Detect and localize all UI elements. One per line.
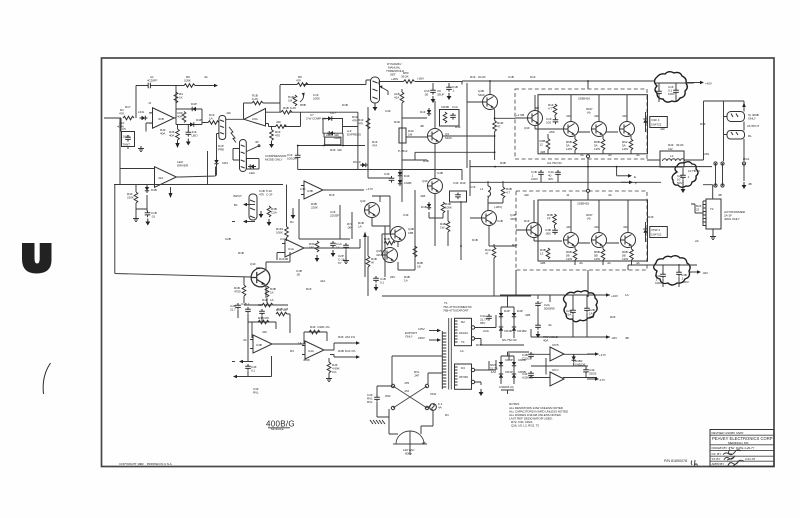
op-amp U4B: [302, 341, 327, 359]
svg-text:T4: T4: [461, 340, 465, 344]
svg-text:4.99K 1%: 4.99K 1%: [317, 325, 330, 329]
svg-text:R2F: R2F: [610, 315, 616, 319]
svg-text:+: +: [541, 300, 543, 304]
resistor R50 39.2K: [404, 80, 415, 84]
op-amp U1A: [149, 108, 176, 129]
resistor R15 horizontal: [262, 303, 273, 307]
svg-text:INPUT: INPUT: [233, 194, 242, 198]
svg-text:D4P: D4P: [517, 309, 523, 313]
bridge2 diode D23: [512, 372, 516, 380]
ground left: [133, 216, 139, 222]
diode D15: [643, 227, 647, 235]
svg-text:2SB5416: 2SB5416: [578, 97, 590, 101]
bridge1 diode D16: [499, 311, 503, 319]
wire: drive line to lower bank: [369, 170, 462, 181]
svg-text:R1F: R1F: [524, 219, 530, 223]
wire: U2 output right to CR4 chain: [177, 167, 216, 178]
diode CR7: [326, 116, 334, 120]
svg-text:SET: SET: [390, 73, 396, 77]
fuse F1: [430, 404, 437, 411]
potentiometer P1: [371, 77, 380, 103]
arrow up at jack feed: [742, 103, 746, 108]
diode D2: [190, 107, 198, 111]
svg-text:L2: L2: [670, 154, 674, 158]
resistor loop box: [325, 137, 341, 145]
svg-text:150: 150: [309, 246, 314, 250]
capacitor C4G in cloud3: [676, 270, 682, 277]
svg-text:41F: 41F: [337, 148, 342, 152]
svg-text:C4F: C4F: [384, 172, 390, 176]
capacitor C6: [145, 211, 151, 218]
resistor R32: [413, 246, 417, 257]
capacitor C25: [528, 352, 534, 359]
bridge1 diode D17: [512, 311, 516, 319]
svg-text:20.2K: 20.2K: [478, 75, 487, 79]
svg-text:R1: R1: [290, 220, 294, 224]
transistor Q3: [251, 268, 270, 287]
svg-text:12W: 12W: [622, 257, 628, 261]
svg-text:380: 380: [589, 315, 594, 319]
capacitor C11: [343, 243, 349, 250]
wire: top feedback bus: [136, 86, 184, 119]
wire: -42 rail: [628, 264, 663, 266]
wire: base bus 2: [578, 242, 619, 244]
svg-text:D14 1%: D14 1%: [345, 349, 356, 353]
output transistor Q26: [592, 233, 607, 248]
svg-text:470: 470: [275, 134, 280, 138]
svg-text:100K: 100K: [276, 231, 284, 235]
svg-text:LIN1: LIN1: [138, 110, 145, 114]
ground below C4: [186, 139, 191, 146]
op-amp U3: [301, 181, 326, 199]
svg-text:4700: 4700: [234, 290, 241, 294]
svg-text:41B: 41B: [525, 313, 530, 317]
wire: input feed from left border: [104, 117, 121, 119]
diode pair bias: [398, 170, 402, 178]
capacitor C13: [295, 153, 301, 160]
svg-text:15B: 15B: [408, 231, 413, 235]
wire: switch to plug loop: [389, 409, 433, 434]
secondary terminals S1: [471, 326, 474, 329]
svg-text:R1F: R1F: [329, 193, 335, 197]
feedback loop wire: [244, 85, 281, 119]
wire: U1B output: [307, 239, 360, 248]
feedback ladder under U3: resistor R30: [299, 199, 350, 239]
svg-text:0.1: 0.1: [251, 369, 255, 373]
svg-text:R4B: R4B: [277, 307, 283, 311]
cloud 4 hand-drawn: [564, 291, 598, 322]
svg-text:U5 C: U5 C: [552, 368, 560, 372]
output jack J4: [727, 131, 745, 140]
svg-text:41F: 41F: [566, 114, 571, 118]
svg-text:OUTPUT: OUTPUT: [747, 124, 759, 128]
connector pins cluster: [716, 163, 745, 186]
svg-text:.1: .1: [452, 89, 455, 93]
svg-text:C1F: C1F: [470, 185, 476, 189]
wire: +42V top rail: [500, 295, 610, 308]
resistor R5 47K: [297, 83, 308, 87]
wire: U6 output to jack J1: [227, 118, 244, 120]
resistor R33: [441, 202, 445, 213]
svg-text:APPR BY: APPR BY: [712, 462, 725, 466]
resistor R13: [242, 285, 246, 296]
svg-text:4.7: 4.7: [506, 191, 510, 195]
capacitor C23: [486, 314, 492, 321]
wire: base bus: [563, 129, 618, 132]
svg-text:R4B: R4B: [338, 349, 344, 353]
emitter resistor RE6: [630, 249, 634, 260]
wire: J2 left stubs: [233, 149, 240, 161]
svg-text:41B: 41B: [540, 150, 545, 154]
+42V arrow label: [598, 293, 610, 297]
arrow to node A: [206, 84, 218, 88]
svg-text:PG: PG: [366, 203, 371, 207]
svg-text:R2B: R2B: [476, 343, 482, 347]
svg-text:+1 NB: +1 NB: [516, 113, 524, 117]
ground below C5: [138, 146, 144, 152]
svg-text:D4F: D4F: [648, 215, 654, 219]
ground arrow below R8: [175, 143, 179, 148]
wire: bottom rail under box2: [382, 265, 628, 296]
svg-text:5000/95: 5000/95: [544, 307, 555, 311]
svg-text:.005: .005: [545, 232, 551, 236]
wire: rail to op-amp U2 inputs: [120, 118, 155, 185]
resistor R24 bleed: [293, 95, 297, 106]
svg-text:(-26V): (-26V): [494, 205, 502, 209]
svg-text:NN 752 NC: NN 752 NC: [502, 338, 518, 342]
svg-text:RVL: RVL: [367, 400, 373, 404]
cap row under q3: [235, 303, 241, 310]
svg-text:R1F: R1F: [512, 243, 518, 247]
svg-text:CR7: CR7: [330, 111, 336, 115]
transistor Q20 driver in box: [528, 111, 543, 126]
svg-text:R5B: R5B: [300, 103, 306, 107]
svg-text:12W: 12W: [594, 147, 600, 151]
op-amp U1B: [282, 239, 307, 257]
svg-text:1M: 1M: [408, 133, 413, 137]
capacitor C26: [583, 368, 589, 375]
output transistor Q27: [621, 233, 636, 248]
ground under connector: [742, 182, 747, 189]
title block: [710, 430, 774, 467]
svg-text:D1F: D1F: [530, 75, 536, 79]
hook arrow to +26: [300, 94, 304, 102]
svg-text:C5: C5: [122, 127, 126, 131]
svg-text:4.7: 4.7: [548, 107, 552, 111]
diode LED: [247, 159, 260, 170]
svg-text:CR1B: CR1B: [504, 329, 512, 333]
diode D1: [140, 116, 148, 120]
svg-text:1N4003 (4): 1N4003 (4): [499, 385, 514, 389]
svg-text:41F: 41F: [524, 193, 529, 197]
svg-text:4P: 4P: [255, 140, 259, 144]
ground under cloud2: [681, 186, 686, 193]
svg-text:ON2: ON2: [430, 392, 436, 396]
svg-text:22: 22: [696, 208, 700, 212]
wire: -17 run: [529, 377, 597, 379]
svg-text:+26V: +26V: [417, 77, 425, 81]
svg-text:CR2P: CR2P: [505, 358, 513, 362]
wire: primary top runs: [392, 356, 442, 385]
output transistor Q22: [592, 122, 607, 137]
resistor R7 in clamp: [182, 112, 186, 123]
svg-text:C22/25: C22/25: [522, 357, 532, 361]
svg-text:10/10M: 10/10M: [287, 157, 297, 161]
svg-text:39UF: 39UF: [437, 93, 444, 97]
svg-text:100K: 100K: [184, 79, 192, 83]
capacitor C24: [535, 323, 541, 330]
svg-text:600: 600: [258, 303, 263, 307]
inductor L1 with parallel resistor: [488, 186, 491, 199]
svg-text:CR1B2: CR1B2: [517, 329, 527, 333]
svg-text:4CDIFF: 4CDIFF: [147, 79, 157, 83]
svg-text:MODE ONLY: MODE ONLY: [265, 158, 282, 162]
op-amp U6: [244, 109, 266, 127]
svg-text:C4: C4: [280, 237, 284, 241]
transistor Q8: [383, 248, 398, 263]
autoformer T2: [706, 199, 721, 229]
resistor R58: [553, 214, 557, 225]
arrow feed left 1: [248, 318, 253, 362]
wire: center rail x402: [402, 89, 428, 180]
dashed box: lower output module: [516, 191, 647, 270]
box resistor R40: [399, 128, 406, 143]
transistor Q10: [482, 211, 497, 226]
border frame of schematic sheet: [102, 58, 775, 467]
stray mark: thin pen arc in left margin: [43, 363, 50, 394]
svg-text:R1B: R1B: [423, 159, 429, 163]
svg-text:1N4722: 1N4722: [651, 233, 662, 237]
capacitor C21 600PF: [259, 309, 265, 316]
svg-text:39.2K: 39.2K: [401, 75, 410, 79]
svg-text:PRE: PRE: [218, 148, 224, 152]
capacitor C1G in cloud: [673, 88, 679, 95]
cloud 1 hand-drawn: [655, 72, 688, 102]
capacitor C1F in cloud: [656, 89, 662, 96]
svg-text:1%: 1%: [332, 370, 337, 374]
transformer T1 core: [449, 318, 452, 390]
capacitor C12 + ground: [373, 276, 379, 283]
stray mark: bold U blob in left margin: [22, 243, 51, 274]
emitter resistor RE4: [573, 249, 577, 260]
diode CR8: [327, 131, 335, 135]
op-amp U2 LED driver: [155, 167, 179, 188]
svg-text:R1F: R1F: [700, 122, 706, 126]
capacitor C20: [245, 307, 251, 314]
svg-text:+17V: +17V: [599, 353, 607, 357]
ground under sec2: [479, 389, 484, 396]
wire: collector up: [434, 168, 436, 246]
diode D13: [427, 202, 431, 210]
emitter resistor RE3: [629, 139, 633, 150]
svg-text:R4F: R4F: [455, 125, 461, 129]
diode D3: [188, 122, 196, 126]
svg-text:47: 47: [485, 252, 489, 256]
wire: upper input: [266, 112, 358, 126]
svg-text:-17V: -17V: [599, 378, 606, 382]
resistor R21: [281, 110, 292, 114]
svg-text:D4P: D4P: [191, 102, 197, 106]
svg-text:W: W: [371, 261, 374, 265]
svg-text:COPYRIGHT 1982 PRINTED IN U: COPYRIGHT 1982 PRINTED IN U.S.A.: [119, 462, 173, 466]
feedback arrow up: [364, 236, 366, 277]
svg-text:J1F: J1F: [226, 111, 231, 115]
resistor R8 below clamp: [176, 129, 180, 140]
signature squiggles: [723, 450, 741, 455]
svg-text:D4F: D4F: [404, 174, 410, 178]
diode D9 in series: [360, 163, 368, 167]
svg-text:L1: L1: [480, 187, 484, 191]
svg-text:-42V: -42V: [611, 336, 618, 340]
capacitor C2C in cloud4: [584, 306, 590, 313]
svg-text:76B-4770 EXPORT: 76B-4770 EXPORT: [443, 309, 469, 313]
svg-text:4B: 4B: [422, 441, 426, 445]
svg-text:100V: 100V: [655, 281, 663, 285]
wire: U4A output: [275, 343, 304, 345]
capacitor C16: [430, 88, 436, 95]
svg-text:12: 12: [540, 143, 544, 147]
svg-text:1000: 1000: [313, 97, 320, 101]
svg-text:6.2K: 6.2K: [252, 97, 259, 101]
AC plug dome: [396, 431, 424, 444]
svg-text:100V: 100V: [531, 177, 539, 181]
op-amp U4A: [250, 335, 275, 353]
wire: jack returns: [724, 117, 745, 162]
wire: Q6 emitter chain: [372, 196, 390, 277]
diode loop box: [323, 119, 343, 134]
wire: patch junction drop: [207, 151, 209, 185]
svg-text:R4: R4: [290, 349, 294, 353]
bridge1 diode D18: [499, 325, 503, 333]
svg-text:+26S: +26S: [391, 77, 398, 81]
svg-text:41F: 41F: [566, 225, 571, 229]
capacitor C2B in cloud4: [570, 308, 576, 315]
svg-text:A330/25: A330/25: [522, 376, 533, 380]
transistor Q9: [428, 179, 443, 194]
capacitor C2F in cloud2: [680, 173, 686, 180]
svg-text:D1F 4: D1F 4: [652, 118, 660, 122]
svg-text:D4: D4: [461, 366, 465, 370]
wire: bias network: [136, 185, 148, 217]
svg-text:U4B: U4B: [256, 343, 262, 347]
transistor Q4: [428, 129, 443, 144]
wire: -42 mid rail: [531, 329, 610, 337]
svg-text:1N4B: 1N4B: [404, 181, 411, 185]
wire: U1B inverting stub: [277, 253, 282, 261]
wire: loop to column: [324, 112, 358, 169]
resistor R14: [265, 286, 269, 297]
svg-text:.05: .05: [424, 93, 428, 97]
svg-text:R4B: R4B: [258, 316, 264, 320]
resistor R10: [366, 118, 370, 129]
svg-text:EXPRESS: EXPRESS: [347, 133, 361, 137]
resistor R20 in feedback: [252, 101, 263, 105]
wire: +17 run: [529, 354, 597, 377]
wire: +42V top rail: [462, 81, 654, 94]
svg-text:R4F: R4F: [310, 325, 316, 329]
wire: pot left leg to bus: [366, 80, 371, 85]
svg-text:100K: 100K: [445, 206, 453, 210]
svg-text:21.7: 21.7: [230, 308, 236, 312]
svg-text:Q1F: Q1F: [422, 179, 428, 183]
wire: left leg: [377, 386, 393, 417]
svg-text:ST. BY: ST. BY: [712, 457, 721, 461]
wire: top loop bus: [248, 314, 290, 333]
zener D24: [572, 355, 576, 363]
svg-text:22/35F: 22/35F: [330, 214, 339, 218]
wire: Q5 base feed: [467, 83, 482, 168]
svg-text:41F: 41F: [276, 120, 281, 124]
svg-text:41F: 41F: [622, 114, 627, 118]
capacitor C17: [446, 85, 452, 92]
emitter resistor RE2: [601, 139, 605, 150]
svg-text:220K: 220K: [311, 206, 319, 210]
wire: mid rail: [298, 145, 365, 147]
capacitor C1B .005: [552, 228, 558, 235]
svg-text:CR4: CR4: [222, 161, 228, 165]
wire: long emitter drop: [368, 190, 415, 296]
wire: long feed line: [114, 185, 283, 278]
wire: emitters to box bottom: [575, 136, 631, 154]
svg-text:REVISED 4/10/80 MWF: REVISED 4/10/80 MWF: [712, 431, 744, 435]
supply arrow below U2: [170, 187, 172, 193]
svg-text:B1: B1: [234, 203, 238, 207]
secondary box S2: [455, 364, 472, 389]
svg-text:(4): (4): [587, 217, 591, 221]
svg-text:ONLY: ONLY: [405, 335, 413, 339]
svg-text:D1B: D1B: [342, 103, 348, 107]
ground stub near U1B: [291, 212, 296, 219]
svg-text:PG: PG: [256, 266, 261, 270]
diode CR4: [214, 158, 218, 166]
capacitor C5 10/10 TANT box: [122, 132, 135, 147]
node dot rail/Q5: [489, 80, 491, 82]
resistor R1C 47: [492, 247, 496, 258]
svg-text:1M: 1M: [284, 307, 289, 311]
transistor Q5 driver: [483, 95, 498, 110]
svg-text:+17V: +17V: [366, 187, 374, 191]
wire: mid rails between banks: [470, 160, 712, 196]
svg-text:60Hz: 60Hz: [405, 452, 412, 456]
svg-text:5400: 5400: [478, 93, 485, 97]
inner heatsink box: [538, 95, 648, 154]
svg-text:R4D: R4D: [394, 120, 401, 124]
ground below C16: [431, 96, 436, 103]
wire: inverting input down: [121, 118, 153, 149]
svg-text:C1B: C1B: [508, 75, 514, 79]
wire: bottom rail: [298, 169, 369, 171]
svg-text:6400: 6400: [445, 136, 452, 140]
svg-text:10W: 10W: [703, 152, 709, 156]
L2 coil box: [660, 151, 684, 167]
svg-text:C4F: C4F: [403, 213, 409, 217]
resistor R34: [446, 221, 450, 232]
svg-text:115V: 115V: [418, 327, 426, 331]
model number 400B/G: [266, 420, 295, 432]
svg-text:ONLY: ONLY: [748, 117, 756, 121]
svg-text:D4P: D4P: [196, 118, 202, 122]
svg-text:R4F: R4F: [338, 335, 344, 339]
svg-text:R1B: R1B: [238, 251, 244, 255]
svg-text:+42V: +42V: [611, 294, 619, 298]
transistor Q6: [365, 203, 380, 218]
svg-text:+42V: +42V: [705, 82, 713, 86]
svg-text:C1B: C1B: [497, 219, 503, 223]
resistor R1 47K: [123, 116, 134, 120]
wire: bridge2 bottom bus: [501, 390, 514, 394]
svg-text:LBO: LBO: [192, 134, 199, 138]
svg-text:267/60: 267/60: [459, 375, 468, 379]
